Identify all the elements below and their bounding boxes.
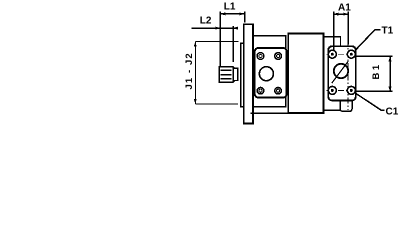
svg-text:B1: B1 — [371, 62, 382, 79]
splined shaft — [219, 67, 235, 83]
dimension B1 (rotated) — [356, 56, 393, 91]
svg-text:J1 - J2: J1 - J2 — [184, 52, 195, 89]
rear plate bolt hole top-left — [328, 50, 336, 58]
front bolt plate with rounded corners — [255, 48, 287, 98]
svg-text:L1: L1 — [224, 2, 236, 13]
rear port plate (folded-out back view) — [328, 46, 355, 100]
svg-text:A1: A1 — [338, 3, 351, 14]
dimension J1-J2 (rotated) — [184, 42, 239, 104]
rear plate bolt hole bottom-right — [347, 86, 355, 94]
svg-text:C1: C1 — [386, 107, 399, 118]
pump mounting flange (side view) — [244, 24, 253, 123]
label C1 with leader — [355, 93, 399, 118]
rear plate bolt hole bottom-left — [328, 86, 336, 94]
rear plate bolt hole top-right — [347, 50, 355, 58]
front plate bolt hole bottom-right — [275, 87, 282, 94]
front plate bolt hole top-right — [275, 53, 282, 60]
rear port plate bottom boss — [340, 100, 352, 111]
front plate bolt hole bottom-left — [257, 87, 264, 94]
smooth shaft section — [234, 68, 238, 80]
front plate center bore — [259, 67, 273, 81]
front plate bolt hole top-left — [257, 53, 264, 60]
horizontal center line through upper bolt holes (dash-dot) — [327, 53, 358, 55]
horizontal center line through lower bolt holes (dash-dot) — [327, 89, 358, 91]
front bearing housing body — [253, 36, 286, 107]
dimension A1 — [334, 3, 352, 51]
gear housing body — [251, 34, 324, 114]
rear plate center bore with slash — [332, 61, 348, 83]
rear cover (side view) — [324, 37, 341, 111]
dimension L2 — [192, 16, 238, 62]
pilot boss in front of flange — [241, 43, 244, 107]
dimension L1 — [220, 2, 244, 67]
svg-text:T1: T1 — [382, 26, 394, 37]
svg-text:L2: L2 — [200, 16, 212, 27]
vertical center line of rear plate (dash-dot) — [347, 40, 349, 110]
label T1 with leader — [355, 26, 394, 51]
